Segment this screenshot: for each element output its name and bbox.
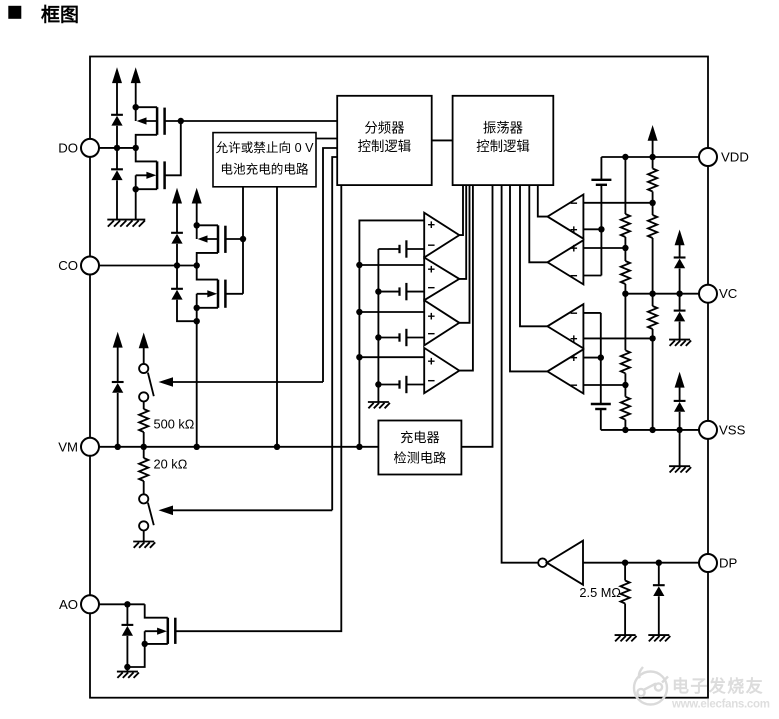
node VC-diode [676, 291, 682, 297]
node DO [133, 145, 139, 151]
wire: charger detect box output to oscillator box [461, 185, 492, 447]
diode D6 at AO [122, 604, 134, 671]
node M1 source top [133, 104, 139, 110]
svg-text:VC: VC [719, 286, 738, 301]
switch S1 [139, 364, 154, 402]
wire diode3 to CO node [176, 244, 178, 289]
node AO [124, 601, 130, 607]
block: charger detection circuit box [378, 421, 461, 475]
U4 output wire to oscillator box [459, 185, 473, 371]
CO pin stub wire [99, 265, 197, 267]
ground under cap rail [368, 402, 390, 408]
reference cap C3 on U3 minus input [378, 329, 424, 346]
node CO-diode [174, 262, 180, 268]
U7 output wire to oscillator box [520, 185, 547, 326]
comparator polarity labels [428, 195, 579, 392]
svg-text:−: − [428, 326, 436, 341]
svg-text:2.5 MΩ: 2.5 MΩ [579, 585, 621, 600]
U5 output wire to oscillator box [538, 185, 548, 217]
wire: DO gate rail to divider box [181, 120, 337, 122]
AO pin stub wire [99, 603, 145, 605]
node VM-CO source [194, 444, 200, 450]
svg-text:−: − [570, 378, 578, 393]
node CO gate [240, 236, 246, 242]
pin circles [81, 139, 717, 613]
node M3 source top [194, 222, 200, 228]
svg-text:+: + [570, 331, 578, 346]
node AO-diode bottom [124, 664, 130, 670]
svg-text:充电器: 充电器 [400, 430, 440, 445]
node VSS-chainA [622, 427, 628, 433]
svg-text:+: + [428, 262, 436, 277]
svg-text:AO: AO [59, 597, 78, 612]
node VDD-chainB [649, 154, 655, 160]
reference cap C1 on U1 minus input [378, 240, 424, 257]
node chainA divider tap 2 [622, 382, 628, 388]
node VC-chainA [622, 291, 628, 297]
comparator U7 (top of second right pair) [547, 304, 583, 348]
svg-text:控制逻辑: 控制逻辑 [476, 139, 530, 154]
transistor M1 (PMOS at DO) [136, 107, 181, 148]
wire: oscillator box to DP inverter [502, 185, 539, 563]
node M5 source [142, 641, 148, 647]
pin DO [81, 139, 99, 157]
title bullet [8, 6, 21, 19]
comparator U4 [424, 348, 459, 393]
ground under AO [117, 672, 139, 678]
wire: divider box to AO gate [175, 185, 341, 631]
node cap rail C3 [375, 334, 381, 340]
supply arrow above VDD divider [648, 125, 658, 157]
pin VSS [699, 421, 717, 439]
VSS rail wire [601, 429, 699, 431]
U4 plus input wire [359, 356, 424, 358]
supply arrow above CO diode chain [172, 188, 182, 233]
U3 output wire to oscillator box [459, 185, 469, 323]
node chainB divider tap 1 [649, 200, 655, 206]
node B2 reference tap [598, 354, 604, 360]
reference cap C2 on U2 minus input [378, 283, 424, 300]
battery reference B1 (top right) [591, 157, 611, 276]
battery reference B2 (bottom right) [591, 313, 611, 430]
node DO gate [178, 118, 184, 124]
U8 output wire to oscillator box [510, 185, 547, 371]
VM pin rail wire [99, 446, 378, 448]
U1 output wire to oscillator box [459, 185, 463, 235]
ground under switch S2 [133, 542, 155, 548]
svg-text:+: + [570, 350, 578, 365]
svg-text:+: + [428, 354, 436, 369]
diode D3 at CO [171, 233, 183, 244]
node DP-D10 [656, 560, 662, 566]
diode D8 below VC to ground [674, 294, 686, 340]
watermark logo [634, 667, 668, 705]
wire: 0V box to CO gates [242, 187, 244, 294]
VDD rail wire [601, 156, 699, 158]
svg-text:振荡器: 振荡器 [483, 121, 524, 136]
transistor M3 (PMOS at CO) [197, 225, 243, 265]
U2 plus input wire [359, 264, 424, 266]
node CO-diode join [194, 318, 200, 324]
svg-text:−: − [428, 373, 436, 388]
U6 output wire to oscillator box [529, 185, 547, 262]
ground under DO mosfets [107, 220, 145, 227]
node plus rail U4 [356, 354, 362, 360]
ground under D10 [648, 635, 670, 641]
node VM-diode [115, 444, 121, 450]
node DO-diode [114, 145, 120, 151]
resistor R2 20k [139, 447, 148, 495]
node VM-switch [141, 444, 147, 450]
svg-text:VSS: VSS [719, 422, 746, 437]
svg-text:−: − [570, 305, 578, 320]
node CO [194, 262, 200, 268]
svg-text:VDD: VDD [721, 150, 749, 165]
svg-text:−: − [570, 268, 578, 283]
node VM-0Vbox [274, 444, 280, 450]
ground under VSS [669, 466, 691, 472]
svg-text:20 kΩ: 20 kΩ [154, 456, 188, 471]
wire VSS to ground [679, 430, 681, 466]
node M4 source [194, 305, 200, 311]
wire: switch1 control arrow [172, 381, 323, 383]
node VM-plus rail [356, 444, 362, 450]
ground under VC diode [669, 340, 691, 346]
U7 plus input wire to divider node [583, 337, 652, 339]
transistor M4 (NMOS at CO) [197, 266, 243, 447]
pin AO [81, 595, 99, 613]
svg-text:+: + [428, 309, 436, 324]
comparator U3 [424, 300, 459, 345]
node plus rail U3 [356, 309, 362, 315]
supply arrow above VM diode [113, 332, 123, 382]
U6 minus input wire from reference [583, 275, 601, 277]
comparator U8 (bottom of second right pair) [547, 349, 583, 393]
supply arrow and diode D9 above VSS [674, 372, 686, 430]
wire diode5 to VM rail [117, 393, 119, 447]
svg-text:允许或禁止向 0 V: 允许或禁止向 0 V [216, 140, 315, 155]
supply arrow above switch S1 [139, 333, 149, 364]
pin VDD [699, 148, 717, 166]
wire: 0V box to VM node [276, 187, 278, 447]
node VSS-chainB [649, 427, 655, 433]
svg-text:www.elecfans.com: www.elecfans.com [671, 699, 770, 711]
node DP-R3 [622, 560, 628, 566]
node VSS-diode [676, 427, 682, 433]
svg-text:+: + [570, 241, 578, 256]
node cap rail C2 [375, 288, 381, 294]
svg-text:分频器: 分频器 [364, 121, 405, 136]
block: oscillator control logic box [453, 96, 554, 185]
svg-text:CO: CO [58, 258, 78, 273]
diode D5 at VM [112, 382, 124, 393]
supply arrow above DO diode chain [112, 67, 122, 115]
pin VC [699, 285, 717, 303]
resistor R1 500k [139, 402, 148, 447]
resistor chain B (x=652.6) [648, 157, 657, 430]
U3 plus input wire [359, 311, 424, 313]
svg-text:500 kΩ: 500 kΩ [154, 417, 195, 432]
pin DP [699, 554, 717, 572]
node VC-chainB [649, 291, 655, 297]
transistor M2 (NMOS at DO) [136, 121, 181, 220]
VC rail wire [625, 293, 699, 295]
U5 plus input wire to reference [583, 228, 601, 230]
U8 minus input wire to divider node [583, 384, 625, 386]
svg-text:−: − [428, 280, 436, 295]
svg-text:电子发烧友: 电子发烧友 [672, 676, 764, 696]
svg-text:−: − [570, 195, 578, 210]
supply arrow and diode D7 above VC [674, 230, 686, 294]
supply arrow above DO mosfet [131, 67, 141, 121]
block: divider control logic box [337, 96, 432, 185]
wire: divider box to oscillator box [432, 139, 453, 141]
wire diode2 to ground [116, 180, 118, 219]
U7 minus input wire to reference B2 [583, 312, 600, 314]
IC boundary frame [90, 57, 708, 698]
supply arrow above CO mosfet [192, 188, 202, 239]
U2 output wire to oscillator box [459, 185, 466, 279]
diode D10 at DP [653, 563, 665, 635]
comparator U6 (bottom of first right pair) [548, 240, 584, 284]
block: 0V-charge enable/disable circuit box [213, 133, 316, 187]
wire switch2 to ground [143, 531, 145, 542]
cap reference rail to ground [377, 249, 379, 402]
svg-text:−: − [428, 238, 436, 253]
diode D4 at CO [171, 289, 183, 300]
inverter U9 at DP [538, 541, 583, 585]
node plus rail U2 [356, 262, 362, 268]
node B1 reference tap [598, 226, 604, 232]
DO pin stub wire [99, 147, 136, 149]
resistor chain A (x=625.4) [621, 157, 630, 430]
wire: divider box stub to switch1 control [323, 148, 337, 382]
node chainB divider tap 2 [649, 335, 655, 341]
svg-text:检测电路: 检测电路 [394, 450, 447, 465]
wire diode1 to DO node [116, 126, 118, 170]
node chainA divider tap 1 [622, 245, 628, 251]
svg-text:DP: DP [719, 556, 738, 571]
svg-text:+: + [570, 222, 578, 237]
svg-text:VM: VM [58, 439, 78, 454]
wire diode4 down and over to source vertical [177, 300, 197, 321]
ground under R3 [615, 635, 637, 641]
comparator U1 [424, 213, 459, 258]
comparator U2 [424, 258, 459, 301]
wire: 0V box to divider box [316, 138, 337, 140]
svg-text:+: + [428, 217, 436, 232]
plus input rail for U1-U4 [359, 220, 424, 446]
svg-text:框图: 框图 [41, 3, 79, 26]
pin CO [81, 257, 99, 275]
node VDD-chainA [622, 154, 628, 160]
diode D1 at DO [111, 115, 123, 126]
wire: switch2 control arrow [172, 509, 332, 511]
svg-text:控制逻辑: 控制逻辑 [358, 139, 412, 154]
svg-text:DO: DO [58, 140, 78, 155]
comparator U5 (overcharge, top right) [548, 195, 584, 239]
wire: divider box stub to switch2 control [332, 157, 337, 510]
switch S2 [139, 494, 154, 530]
node cap rail C4 [375, 381, 381, 387]
U6 plus input wire to divider node [583, 247, 625, 249]
svg-text:电池充电的电路: 电池充电的电路 [220, 162, 309, 177]
DP rail wire [583, 562, 699, 564]
U8 plus input wire to reference rail [583, 357, 600, 359]
diode D2 at DO [111, 169, 123, 180]
resistor R3 2.5M at DP [621, 563, 630, 635]
pin VM [81, 438, 99, 456]
node M2 source [133, 186, 139, 192]
transistor M5 (NMOS at AO) [127, 604, 175, 667]
reference cap C4 on U4 minus input [378, 376, 424, 393]
U5 minus input wire to divider node [583, 202, 652, 204]
